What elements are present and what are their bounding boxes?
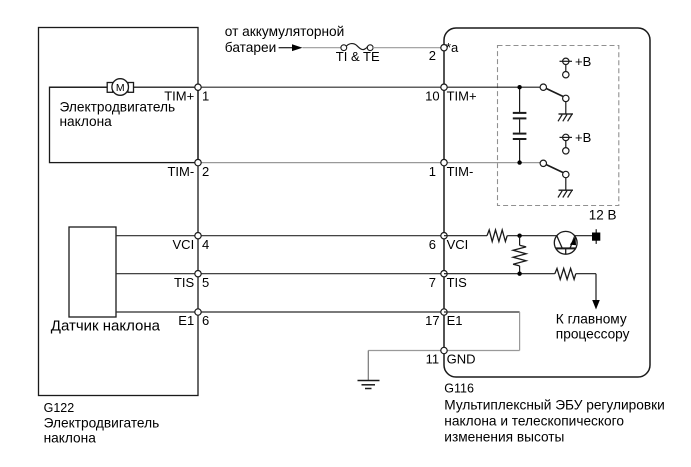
box G122 motor assembly outline	[39, 28, 199, 396]
wire E1 inside ECU	[444, 311, 520, 313]
wire transistor to 12V square	[575, 235, 592, 237]
wire resistor to junction and transistor	[507, 235, 557, 237]
junction dot TIM+	[517, 85, 521, 89]
svg-text:TI & TE: TI & TE	[336, 49, 380, 64]
svg-text:TIS: TIS	[447, 275, 468, 290]
svg-text:батареи: батареи	[225, 40, 276, 55]
pin 4 circle	[195, 233, 201, 239]
relay 1 lower contact	[563, 95, 569, 101]
svg-text:E1: E1	[178, 313, 194, 328]
relay 2 upper contact lead	[565, 140, 567, 147]
wire E1 sensor to pin 6	[116, 311, 444, 313]
relay 2 lower contact	[563, 171, 569, 177]
ground symbol	[358, 380, 380, 382]
12V supply square	[595, 229, 597, 244]
svg-text:К главному: К главному	[556, 311, 627, 326]
arrow to main processor	[592, 300, 600, 310]
pin 7 circle ECU	[441, 271, 447, 277]
box sensor (Датчик наклона)	[69, 227, 116, 317]
wire TIM- inside ECU to switch pole	[444, 162, 541, 164]
wire VCI pin6 to resistor	[444, 235, 487, 237]
wire lead before battery arrow	[279, 47, 293, 49]
svg-text:11: 11	[426, 352, 440, 367]
pin 6 circle left box	[195, 309, 201, 315]
svg-text:10: 10	[425, 88, 439, 103]
svg-text:Электродвигатель: Электродвигатель	[44, 415, 160, 430]
junction dot TIM-	[517, 160, 521, 164]
svg-text:2: 2	[202, 164, 209, 179]
transistor Q1	[554, 231, 577, 254]
svg-text:M: M	[116, 82, 125, 94]
svg-text:G122: G122	[44, 401, 75, 415]
ground drop wire	[367, 351, 369, 381]
pin 17 circle ECU	[441, 309, 447, 315]
pin 10 circle ECU	[441, 84, 447, 90]
svg-text:12 В: 12 В	[589, 207, 617, 222]
wire E1 loop down	[519, 312, 521, 351]
box motor inner	[50, 87, 199, 162]
resistor R3 (TIS series)	[555, 268, 576, 279]
relay 1 upper contact lead	[565, 64, 567, 71]
svg-text:TIM-: TIM-	[167, 164, 194, 179]
svg-text:+B: +B	[575, 54, 591, 69]
svg-text:наклона: наклона	[60, 114, 113, 129]
relay 1 blade	[546, 88, 563, 96]
svg-text:процессору: процессору	[556, 326, 630, 341]
relay 1 ground stem	[565, 101, 567, 114]
svg-text:изменения высоты: изменения высоты	[444, 430, 564, 445]
svg-text:TIM+: TIM+	[447, 88, 477, 103]
wire TIM+ inside ECU to switch pole	[444, 86, 541, 88]
svg-text:TIS: TIS	[174, 275, 195, 290]
wire resistor to corner	[576, 273, 596, 275]
wire TIM- row (pin2 to pin1)	[198, 162, 444, 164]
wire GND out of ECU	[368, 350, 444, 352]
relay 2 ground stem	[565, 178, 567, 191]
svg-text:4: 4	[202, 237, 209, 252]
relay 2 pole	[540, 160, 546, 166]
wire loop bottom to GND pin	[444, 350, 520, 352]
svg-text:1: 1	[202, 88, 209, 103]
svg-text:G116: G116	[444, 382, 474, 396]
relay 1 pole	[540, 84, 546, 90]
wire TIS sensor to pin 5	[116, 273, 444, 275]
svg-text:7: 7	[429, 275, 436, 290]
battery arrow	[292, 44, 303, 51]
wire TIS pin7 to resistor	[444, 273, 555, 275]
relay 2 blade	[546, 165, 563, 173]
wire fuse to pin *a	[373, 47, 441, 49]
junction dot TIS	[517, 272, 521, 276]
box ECU G116 rounded	[444, 28, 650, 377]
wire TIM+ row (pin1 to pin10)	[198, 86, 444, 88]
capacitor branch vertical line	[519, 87, 521, 112]
capacitor C2	[513, 133, 527, 135]
wire capacitor to TIM-	[519, 140, 521, 163]
dashed relay block	[498, 46, 619, 206]
pin 5 circle	[195, 271, 201, 277]
svg-text:TIM-: TIM-	[447, 164, 474, 179]
relay 1 +B terminal	[563, 58, 569, 64]
svg-text:6: 6	[429, 237, 436, 252]
pin 1 circle left box	[195, 84, 201, 90]
svg-text:Электродвигатель: Электродвигатель	[60, 99, 176, 114]
pin 6 circle ECU	[441, 233, 447, 239]
svg-text:Датчик наклона: Датчик наклона	[51, 318, 161, 335]
svg-text:+B: +B	[575, 130, 591, 145]
wire between capacitors	[519, 119, 521, 132]
svg-text:E1: E1	[447, 313, 463, 328]
motor symbol M on TIM+ line	[50, 86, 108, 88]
svg-text:TIM+: TIM+	[164, 88, 194, 103]
svg-text:1: 1	[429, 164, 436, 179]
junction dot VCI	[517, 234, 521, 238]
pin *a circle	[441, 45, 447, 51]
chassis ground 1	[559, 113, 574, 115]
svg-text:VCI: VCI	[173, 237, 195, 252]
svg-text:наклона: наклона	[44, 431, 97, 446]
svg-text:2: 2	[429, 48, 436, 63]
pin 2 circle left box	[195, 159, 201, 165]
relay 2 +B terminal	[563, 134, 569, 140]
capacitor C1	[513, 112, 527, 114]
resistor R2 (pull between VCI and TIS)	[519, 236, 521, 246]
svg-text:5: 5	[202, 275, 209, 290]
svg-text:от аккумуляторной: от аккумуляторной	[225, 24, 344, 39]
resistor R1 (VCI series)	[487, 230, 507, 242]
svg-text:17: 17	[425, 313, 439, 328]
fuse TI & TE	[341, 45, 347, 51]
wire battery to fuse	[303, 47, 342, 49]
svg-text:*a: *a	[446, 40, 459, 55]
pin 11 circle ECU	[441, 347, 447, 353]
svg-text:Мультиплексный ЭБУ регулировки: Мультиплексный ЭБУ регулировки	[444, 398, 664, 413]
svg-text:GND: GND	[447, 352, 476, 367]
wire VCI sensor to pin 4	[116, 235, 444, 237]
svg-text:6: 6	[202, 313, 209, 328]
wire down to processor arrow	[595, 274, 597, 301]
chassis ground 2	[559, 189, 574, 191]
svg-text:VCI: VCI	[447, 237, 469, 252]
svg-text:наклона и телескопического: наклона и телескопического	[444, 414, 624, 429]
pin 1 circle ECU	[441, 159, 447, 165]
